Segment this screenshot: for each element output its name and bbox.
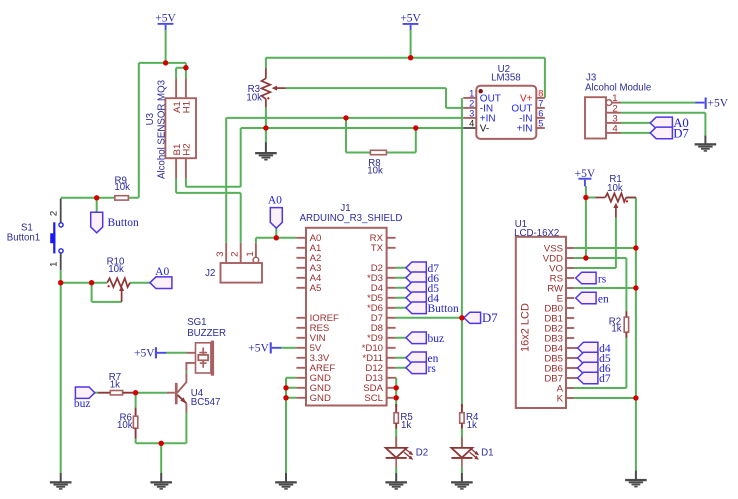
potentiometer R10 [107,257,130,302]
svg-text:BC547: BC547 [191,397,221,408]
wire U3 H2 to GND net [186,128,241,187]
node d6 (Arduino D3) [406,272,439,285]
svg-text:10k: 10k [607,183,623,194]
junction R8 left [343,115,348,120]
ground (LED D2) [385,473,407,490]
svg-text:H1: H1 [182,101,193,113]
svg-text:+5V: +5V [400,12,421,24]
wire R2 bottom to A row [574,338,626,389]
svg-text:Button: Button [428,303,460,315]
node D7 (flag right of junction) [464,311,498,325]
node A0 (flag above J2 pin1) [268,194,282,228]
ground (LED D1) [451,473,473,490]
svg-text:7: 7 [538,99,543,109]
svg-text:D7: D7 [673,126,689,140]
svg-text:TX: TX [371,243,384,254]
wire U2 OUT down to D7 row and R4 [461,98,463,407]
resistor R8 [367,150,386,176]
svg-text:10k: 10k [117,420,133,431]
svg-text:+IN: +IN [517,124,533,135]
svg-text:buz: buz [428,333,445,345]
svg-text:16x2 LCD: 16x2 LCD [520,303,532,352]
wire S1 pin1 to R10 row and ground [61,270,107,474]
sensor U3 Alcohol SENSOR MQ3 [145,78,196,179]
svg-text:3: 3 [215,252,226,257]
junction D7 net [459,315,464,320]
wire R3 bottom to V- net and ground [265,107,267,142]
wire R4 to LED D1 [461,428,463,448]
svg-text:1: 1 [469,89,474,99]
wire J3 pin2 to ground [621,113,705,136]
wire LCD VSS row [574,247,636,249]
svg-text:V-: V- [480,124,489,135]
svg-text:D2: D2 [416,447,428,458]
wire R9 row to S1 and Button [61,198,139,213]
switch S1 Button1 [7,199,63,270]
wire ground rail VSS-RW-K [574,248,636,471]
wire U2 V- net [241,127,464,129]
wire Arduino D13/SDA/SCL to R5 [395,378,398,407]
wire R1 right to VSS rail [626,198,636,249]
wire Arduino GND pins to ground [286,378,296,473]
node d4 (LCD DB4) [578,342,611,355]
LED D1 [451,437,493,467]
junction U3 H1 branch [183,65,188,70]
svg-text:rs: rs [598,273,607,285]
svg-text:4: 4 [469,119,474,129]
svg-text:1k: 1k [467,420,477,431]
power +5V (top middle) [400,12,421,30]
svg-text:2: 2 [612,103,617,114]
junction R3 bottom/V-/GND [263,125,268,130]
wire R10 to A0 flag [130,282,150,284]
connector J2 [205,243,262,283]
wire Arduino 5V supply [281,347,297,349]
node buz (Arduino D9) [406,332,444,345]
buzzer SG1 [186,317,226,376]
wire J3 pin3 to A0 flag [621,122,650,124]
junction A0 flag tap [274,235,279,240]
node rs (Arduino D12) [406,362,436,375]
node en (LCD E) [576,292,609,305]
svg-text:Button1: Button1 [7,232,40,243]
resistor R2 [609,311,629,337]
wire buzzer pin1 +5V [166,352,187,354]
connector J3 Alcohol Module [585,73,651,139]
svg-text:U3: U3 [145,113,156,125]
ground (under R3) [255,142,277,160]
ground (J3 pin2) [695,136,717,152]
resistor R4 [460,404,479,431]
wire J2 pin1 to Arduino A0 [256,238,297,243]
node en (Arduino D11) [406,352,439,365]
junction GND row 2 [283,385,288,390]
wire buz flag to R7 [95,392,98,394]
potentiometer R3 [246,68,286,107]
junction RW [633,285,638,290]
resistor R9 [114,175,130,200]
svg-text:1: 1 [49,262,60,267]
junction VSS/R1 right [633,245,638,250]
svg-text:buz: buz [74,398,91,410]
svg-text:Alcohol SENSOR MQ3: Alcohol SENSOR MQ3 [157,80,168,179]
node Button (flag below R9 junction) [91,212,139,233]
wire LED D1 to ground [461,467,463,473]
wire LCD RW row [574,287,636,289]
svg-text:5: 5 [538,119,543,129]
resistor R7 [98,372,136,395]
junction +5V/R1 [583,195,588,200]
node d6 (LCD DB6) [578,362,611,375]
wire LED D2 to ground [395,467,397,473]
FLAGS-SECTION [58,55,639,446]
svg-text:8: 8 [538,89,543,99]
ground (R6/U4 emitter) [150,473,172,490]
wire Arduino D7 row to D7 flag [396,317,466,319]
svg-text:LCD-16X2: LCD-16X2 [514,228,559,239]
junction R7/R6/base [133,390,138,395]
svg-text:2: 2 [469,99,474,109]
wire U3 B1 to J2 pin2 [176,78,241,243]
svg-text:10k: 10k [246,92,262,103]
wire R1 wiper to VO [574,217,616,268]
junction K/GND [633,395,638,400]
svg-text:2: 2 [49,211,60,216]
ground (S1 column) [50,473,72,490]
junction VDD [583,255,588,260]
transistor U4 BC547 [167,373,221,412]
svg-text:10k: 10k [108,264,124,275]
svg-text:+5V: +5V [708,98,729,110]
svg-text:+5V: +5V [248,343,269,355]
svg-text:A0: A0 [155,266,169,278]
node D7 (flag at J3 pin4) [650,126,689,140]
svg-text:en: en [598,293,609,305]
svg-text:SCL: SCL [364,393,383,404]
wire LCD +5V to R1 and VDD [586,186,596,258]
ground (Arduino GND) [275,473,297,490]
svg-text:D7: D7 [482,311,498,325]
wire R5 to LED D2 [395,428,397,448]
node A0 (flag at J3 pin3) [650,116,689,130]
power +5V (Arduino 5V) [248,342,281,354]
header J1 ARDUINO_R3_SHIELD [296,203,402,405]
junction GND row 3 [283,395,288,400]
svg-text:Button: Button [108,217,140,229]
junction +5V rail [408,55,413,60]
wire +5V to U3 pins net [139,30,186,198]
wire J3 pin4 to D7 flag [621,132,650,134]
svg-text:LM358: LM358 [491,72,521,83]
power +5V (top left) [155,13,176,30]
svg-text:3: 3 [469,109,474,119]
node d4 (Arduino D5) [406,292,439,305]
svg-text:rs: rs [428,363,437,375]
svg-text:2: 2 [230,252,241,257]
wire U2 +IN net to J2 pin3 [226,118,463,243]
svg-text:D1: D1 [481,447,493,458]
wire J3 pin1 to +5V [621,102,696,104]
junction R10 wiper tap [89,280,94,285]
svg-text:1k: 1k [611,323,621,334]
wire R3 wiper to U2 pin2 [286,88,463,108]
node d5 (LCD DB5) [578,352,611,365]
junction +5V/U3 split [163,60,168,65]
power +5V (buzzer) [134,347,166,359]
node d5 (Arduino D4) [406,282,439,295]
svg-text:6: 6 [538,109,543,119]
svg-text:Alcohol Module: Alcohol Module [585,83,651,94]
wire R8 branches [346,118,416,153]
junction emitter GND drop [159,441,164,446]
wire A0 flag drop [275,228,277,238]
power +5V (J3 right) [695,98,728,110]
wire +5V rail to U2 pin8 and R3 [266,30,545,98]
node d7 (Arduino D2) [406,262,439,275]
svg-text:10k: 10k [114,182,130,193]
resistor R5 [394,404,413,431]
junction SDA row [394,385,399,390]
svg-text:H2: H2 [182,143,193,155]
svg-text:ARDUINO_R3_SHIELD: ARDUINO_R3_SHIELD [300,213,403,224]
LCD U1 LCD-16X2 [514,219,577,408]
wire R6 bottom to emitter and ground [136,412,187,473]
svg-text:A0: A0 [268,194,282,206]
svg-text:4: 4 [612,123,618,134]
node rs (LCD RS) [576,272,607,285]
svg-text:K: K [557,393,564,404]
svg-text:1k: 1k [110,379,120,390]
ground (LCD K) [625,471,647,488]
svg-text:+5V: +5V [155,13,176,25]
svg-text:A5: A5 [310,283,322,294]
wire R7/R6 junction down [135,393,137,408]
potentiometer R1 [596,174,636,217]
op-amp U2 LM358 [463,64,545,139]
wire R7 to U4 base [136,392,167,394]
wire Arduino D2-D6,D9,D11,D12 flag stubs [396,268,406,368]
wire buzzer pin2 to collector [185,370,187,373]
svg-text:J2: J2 [205,268,215,279]
svg-text:GND: GND [310,393,331,404]
node A0 (flag at R10) [150,266,172,289]
junction S1 pin1/R10/GND [58,280,63,285]
junction R8 right [413,125,418,130]
svg-text:1k: 1k [401,420,411,431]
wire R10 wiper loop [92,283,122,302]
svg-text:d7: d7 [599,373,611,385]
junction SCL row/R5 [394,395,399,400]
node d7 (LCD DB7) [578,372,611,385]
svg-text:SG1: SG1 [187,317,206,328]
resistor R6 [117,408,138,439]
svg-text:BUZZER: BUZZER [187,328,226,339]
wire LCD VDD row to R2 [574,258,626,312]
node Button (Arduino D6) [406,302,459,315]
node buz (flag at R7) [74,387,95,410]
junction R9/Button [94,195,99,200]
svg-text:+5V: +5V [134,348,155,360]
svg-text:1: 1 [245,251,256,256]
power +5V (LCD top) [575,168,596,186]
LED D2 [386,437,428,467]
svg-text:10k: 10k [367,166,383,177]
